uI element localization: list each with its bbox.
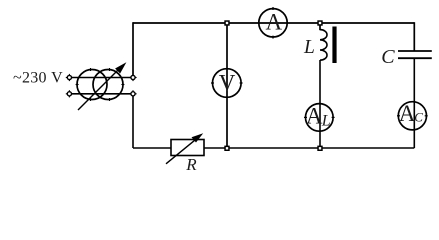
label L xyxy=(303,37,315,58)
capacitor C xyxy=(398,51,432,58)
wire left bus lower xyxy=(132,94,134,148)
svg-text:R: R xyxy=(185,155,197,174)
wire bottom right of R xyxy=(204,147,414,149)
node bottom voltmeter junction xyxy=(224,146,229,151)
svg-text:C: C xyxy=(381,46,395,68)
label R xyxy=(185,155,197,174)
ammeter A xyxy=(259,7,287,39)
svg-text:A: A xyxy=(266,9,283,34)
terminal input upper xyxy=(66,74,73,81)
wire top xyxy=(133,22,414,24)
node bottom inductor junction xyxy=(317,146,322,151)
wire left bus upper xyxy=(132,22,134,77)
node top voltmeter junction xyxy=(224,20,229,25)
inductor core xyxy=(332,27,336,64)
svg-text:A: A xyxy=(306,103,323,128)
node top inductor junction xyxy=(317,20,322,25)
wire voltmeter branch xyxy=(226,23,228,148)
terminal variac out upper xyxy=(129,74,136,81)
transformer variac T1 xyxy=(72,62,131,110)
wire inductor branch upper xyxy=(319,23,321,30)
svg-text:A: A xyxy=(399,101,416,126)
terminal variac out lower xyxy=(129,90,136,97)
label ~230 V xyxy=(13,70,63,87)
label C xyxy=(381,46,395,68)
terminal input lower xyxy=(66,90,73,97)
resistor R xyxy=(166,133,204,164)
svg-text:L: L xyxy=(303,37,315,58)
svg-text:~230 V: ~230 V xyxy=(13,70,63,87)
wire bottom left of R xyxy=(133,147,171,149)
wire right bus lower xyxy=(413,58,415,148)
svg-text:V: V xyxy=(219,70,236,95)
wire inductor branch lower xyxy=(319,60,321,148)
voltmeter V xyxy=(211,69,243,98)
wire right bus upper xyxy=(413,22,415,51)
svg-text:C: C xyxy=(414,109,423,124)
inductor L xyxy=(320,30,327,61)
ammeter AC xyxy=(397,101,428,130)
ammeter AL xyxy=(304,103,335,131)
svg-text:L: L xyxy=(321,113,331,130)
